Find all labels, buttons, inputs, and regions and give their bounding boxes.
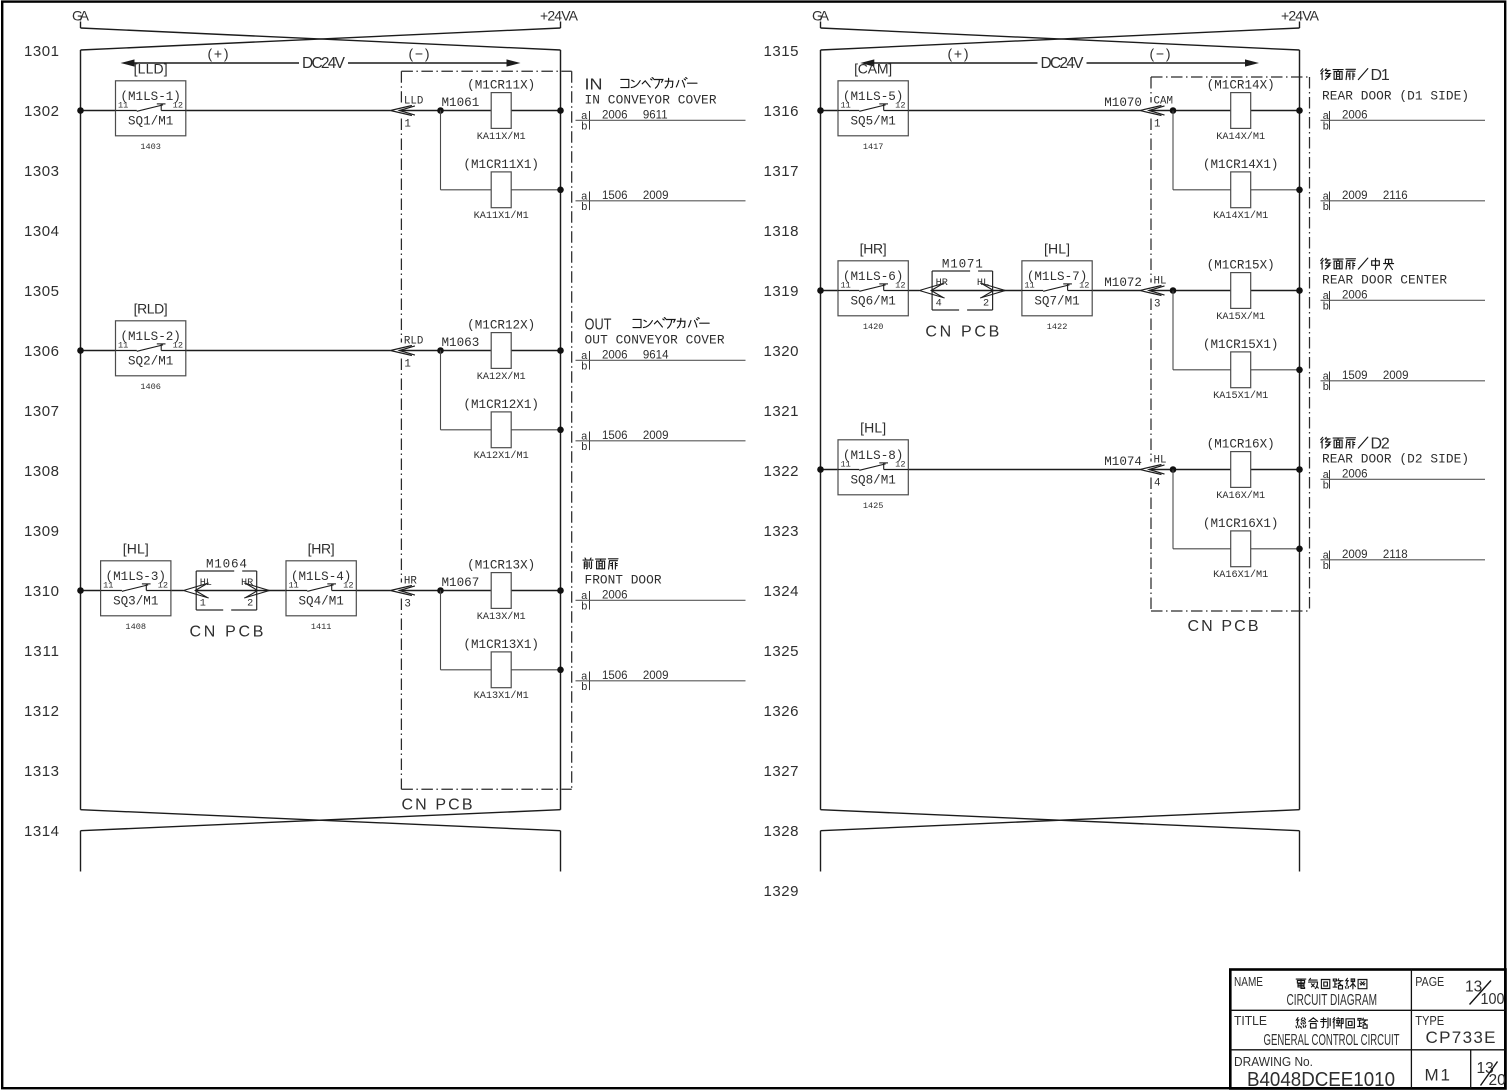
svg-text:2006: 2006	[1342, 469, 1368, 481]
svg-text:2006: 2006	[602, 110, 628, 122]
relay coil KA15X (M1CR15X)	[1207, 259, 1275, 323]
svg-text:b: b	[1323, 481, 1330, 493]
svg-text:11: 11	[1024, 280, 1034, 290]
svg-text:2006: 2006	[602, 590, 628, 602]
svg-text:1326: 1326	[764, 703, 799, 720]
svg-text:1425: 1425	[863, 501, 884, 511]
svg-text:RLD: RLD	[404, 336, 423, 348]
svg-text:1302: 1302	[24, 103, 59, 120]
svg-text:M1: M1	[1425, 1065, 1451, 1084]
svg-text:CIRCUIT DIAGRAM: CIRCUIT DIAGRAM	[1287, 992, 1378, 1009]
svg-text:2: 2	[983, 299, 989, 310]
svg-text:1406: 1406	[140, 382, 161, 392]
+24VA supply rail (right)	[560, 50, 562, 810]
relay coil KA12X1 (M1CR12X1)	[463, 398, 539, 462]
svg-text:[LLD]: [LLD]	[134, 60, 168, 76]
CN PCB label under connector	[925, 324, 999, 341]
connector pin CAM-1 at CN PCB boundary	[1140, 96, 1173, 131]
relay coil KA11X1 (M1CR11X1)	[463, 158, 539, 222]
branch wire to KA11X1	[441, 111, 564, 194]
svg-text:GA: GA	[72, 8, 90, 24]
svg-text:1: 1	[404, 358, 410, 370]
svg-text:1420: 1420	[863, 322, 884, 332]
wire number 1506 2009	[576, 670, 746, 694]
svg-text:(M1CR16X): (M1CR16X)	[1207, 438, 1275, 452]
svg-text:[HR]: [HR]	[860, 240, 887, 256]
+24VA bus label	[1281, 8, 1320, 24]
svg-text:2009: 2009	[643, 430, 669, 442]
svg-text:9611: 9611	[643, 110, 668, 122]
bus continuation crossover to next page	[821, 810, 1300, 872]
svg-text:1313: 1313	[24, 763, 59, 780]
line number column	[764, 43, 799, 900]
svg-text:1304: 1304	[24, 223, 59, 240]
svg-text:HR: HR	[404, 576, 417, 588]
svg-text:1318: 1318	[764, 223, 799, 240]
node M1061	[442, 96, 480, 110]
svg-text:HL: HL	[1154, 455, 1167, 467]
svg-text:D1: D1	[1371, 67, 1390, 84]
svg-text:12: 12	[1079, 280, 1089, 290]
svg-text:(M1CR12X1): (M1CR12X1)	[463, 398, 539, 412]
wire number 2009 2116	[1321, 190, 1486, 214]
svg-text:1408: 1408	[125, 622, 146, 632]
wire number 2006 9614	[576, 350, 746, 374]
svg-text:1301: 1301	[24, 43, 59, 60]
svg-text:1315: 1315	[764, 43, 799, 60]
wire number 2006	[1321, 110, 1486, 134]
svg-text:TYPE: TYPE	[1415, 1013, 1444, 1028]
svg-text:1329: 1329	[764, 883, 799, 900]
limit switch SQ3 (M1LS-3)	[101, 540, 171, 632]
svg-text:M1071: M1071	[942, 258, 983, 272]
svg-text:M1074: M1074	[1104, 455, 1142, 469]
svg-text:(−): (−)	[1150, 46, 1171, 62]
wire number 1506 2009	[576, 430, 746, 454]
svg-text:SQ3/M1: SQ3/M1	[113, 595, 158, 609]
relay coil KA15X1 (M1CR15X1)	[1203, 338, 1279, 402]
svg-text:b: b	[581, 122, 588, 134]
limit switch SQ5 (M1LS-5)	[838, 60, 908, 152]
svg-text:1321: 1321	[764, 403, 799, 420]
svg-text:(M1CR14X1): (M1CR14X1)	[1203, 158, 1279, 172]
svg-text:1323: 1323	[764, 523, 799, 540]
svg-text:11: 11	[841, 100, 851, 110]
svg-text:OUT CONVEYOR COVER: OUT CONVEYOR COVER	[585, 333, 725, 348]
title block kanji NAME field	[1296, 978, 1367, 989]
svg-text:SQ4/M1: SQ4/M1	[298, 595, 343, 609]
svg-text:20: 20	[1489, 1072, 1507, 1089]
svg-text:CP733E: CP733E	[1426, 1028, 1496, 1047]
svg-text:REAR DOOR CENTER: REAR DOOR CENTER	[1322, 273, 1447, 288]
svg-text:(M1CR13X1): (M1CR13X1)	[463, 638, 539, 652]
svg-text:11: 11	[103, 580, 113, 590]
wire rung at line 1310	[77, 587, 564, 594]
svg-text:+24VA: +24VA	[540, 8, 579, 24]
svg-text:DRAWING No.: DRAWING No.	[1234, 1054, 1313, 1069]
svg-text:M1067: M1067	[442, 576, 480, 590]
relay coil KA12X (M1CR12X)	[467, 319, 535, 383]
svg-text:(+): (+)	[948, 46, 969, 62]
svg-text:b: b	[1323, 202, 1330, 214]
wire rung at line 1306	[77, 347, 564, 354]
branch wire to KA12X1	[441, 351, 564, 434]
limit switch SQ7 (M1LS-7)	[1022, 240, 1092, 332]
svg-text:1316: 1316	[764, 103, 799, 120]
svg-text:1: 1	[200, 599, 206, 610]
svg-text:1314: 1314	[24, 823, 59, 840]
svg-text:12: 12	[343, 580, 353, 590]
connector pin RLD-1 at CN PCB boundary	[390, 336, 423, 371]
svg-text:1327: 1327	[764, 763, 799, 780]
svg-text:1303: 1303	[24, 163, 59, 180]
svg-text:b: b	[1323, 122, 1330, 134]
svg-text:CN PCB: CN PCB	[925, 324, 999, 341]
svg-text:M1064: M1064	[206, 558, 247, 572]
limit switch SQ4 (M1LS-4)	[286, 540, 356, 632]
svg-text:HL: HL	[200, 578, 212, 589]
svg-text:KA11X/M1: KA11X/M1	[477, 131, 526, 143]
connector M1071 (CN PCB header)	[919, 258, 1005, 311]
svg-text:b: b	[1323, 382, 1330, 394]
wire number 2006	[576, 590, 746, 614]
svg-text:HR: HR	[241, 578, 253, 589]
svg-text:(M1CR14X): (M1CR14X)	[1207, 79, 1275, 93]
node M1072	[1104, 276, 1142, 290]
svg-text:3: 3	[1154, 298, 1160, 310]
svg-text:(−): (−)	[409, 46, 430, 62]
svg-text:12: 12	[895, 100, 905, 110]
relay coil KA16X1 (M1CR16X1)	[1203, 517, 1279, 581]
svg-text:REAR DOOR (D2 SIDE): REAR DOOR (D2 SIDE)	[1322, 452, 1469, 467]
svg-text:b: b	[581, 362, 588, 374]
svg-text:12: 12	[895, 459, 905, 469]
svg-text:M1070: M1070	[1104, 96, 1142, 110]
CN PCB boundary box (right ladder)	[1151, 77, 1310, 635]
svg-text:[HL]: [HL]	[123, 540, 149, 556]
svg-text:b: b	[581, 602, 588, 614]
node M1070	[1104, 96, 1142, 110]
wire number 2006	[1321, 469, 1486, 493]
svg-text:11: 11	[118, 100, 128, 110]
relay coil KA13X (M1CR13X)	[467, 559, 535, 623]
svg-text:M1072: M1072	[1104, 276, 1142, 290]
svg-text:2009: 2009	[643, 190, 669, 202]
svg-text:M1063: M1063	[442, 336, 480, 350]
svg-text:SQ6/M1: SQ6/M1	[850, 295, 895, 309]
relay coil KA14X1 (M1CR14X1)	[1203, 158, 1279, 222]
svg-text:2006: 2006	[1342, 110, 1368, 122]
annotation REAR DOOR CENTER	[1321, 258, 1448, 287]
wire number 2006	[1321, 290, 1486, 314]
svg-text:1422: 1422	[1047, 322, 1068, 332]
svg-text:DC24V: DC24V	[302, 55, 346, 72]
svg-text:SQ2/M1: SQ2/M1	[128, 355, 173, 369]
connector pin HL-3 at CN PCB boundary	[1140, 276, 1166, 311]
svg-text:2009: 2009	[1342, 190, 1368, 202]
svg-text:CN PCB: CN PCB	[189, 624, 263, 641]
svg-text:CN PCB: CN PCB	[1188, 618, 1259, 635]
annotation FRONT DOOR	[583, 558, 662, 588]
CN PCB label under connector	[189, 624, 263, 641]
line number column	[24, 43, 59, 840]
svg-text:1506: 1506	[602, 190, 628, 202]
svg-text:12: 12	[173, 100, 183, 110]
svg-text:1506: 1506	[602, 670, 628, 682]
GA supply rail (left)	[820, 50, 822, 810]
svg-text:2009: 2009	[1383, 370, 1409, 382]
svg-text:11: 11	[841, 280, 851, 290]
svg-text:4: 4	[936, 299, 942, 310]
svg-text:1306: 1306	[24, 343, 59, 360]
svg-text:1317: 1317	[764, 163, 799, 180]
svg-text:3: 3	[404, 598, 410, 610]
svg-text:OUT: OUT	[585, 317, 612, 334]
svg-text:2009: 2009	[643, 670, 669, 682]
svg-text:1320: 1320	[764, 343, 799, 360]
svg-text:1312: 1312	[24, 703, 59, 720]
svg-text:KA12X/M1: KA12X/M1	[477, 371, 526, 383]
wire number 1509 2009	[1321, 370, 1486, 394]
svg-text:B4048DCEE1010: B4048DCEE1010	[1247, 1069, 1395, 1091]
svg-text:[HR]: [HR]	[308, 540, 335, 556]
svg-text:NAME: NAME	[1234, 974, 1263, 989]
DC24V polarity dimension arrow	[860, 46, 1259, 72]
svg-text:HR: HR	[936, 278, 948, 289]
svg-text:IN CONVEYOR COVER: IN CONVEYOR COVER	[585, 93, 717, 108]
svg-text:KA13X/M1: KA13X/M1	[477, 611, 526, 623]
svg-text:SQ7/M1: SQ7/M1	[1034, 295, 1079, 309]
svg-text:1319: 1319	[764, 283, 799, 300]
relay coil KA16X (M1CR16X)	[1207, 438, 1275, 502]
svg-text:[RLD]: [RLD]	[134, 300, 168, 316]
svg-text:b: b	[1323, 561, 1330, 573]
svg-text:SQ5/M1: SQ5/M1	[850, 115, 895, 129]
connector pin LLD-1 at CN PCB boundary	[390, 96, 423, 131]
GA bus label	[812, 8, 830, 24]
svg-text:(+): (+)	[208, 46, 229, 62]
svg-text:4: 4	[1154, 477, 1160, 489]
svg-text:CN PCB: CN PCB	[402, 797, 473, 814]
limit switch SQ8 (M1LS-8)	[838, 419, 908, 511]
svg-text:REAR DOOR (D1 SIDE): REAR DOOR (D1 SIDE)	[1322, 89, 1469, 104]
svg-text:KA13X1/M1: KA13X1/M1	[474, 690, 529, 702]
svg-text:b: b	[581, 202, 588, 214]
svg-text:1509: 1509	[1342, 370, 1368, 382]
wire rung at line 1302	[77, 107, 564, 114]
limit switch SQ1 (M1LS-1)	[116, 60, 186, 152]
svg-text:1417: 1417	[863, 142, 884, 152]
GA bus label	[72, 8, 90, 24]
svg-text:[HL]: [HL]	[860, 419, 886, 435]
svg-text:1310: 1310	[24, 583, 59, 600]
svg-text:(M1CR15X1): (M1CR15X1)	[1203, 338, 1279, 352]
svg-text:11: 11	[841, 459, 851, 469]
svg-text:11: 11	[289, 580, 299, 590]
DC24V polarity dimension arrow	[121, 46, 521, 72]
annotation REAR DOOR (D1 SIDE)	[1321, 67, 1469, 104]
svg-text:IN: IN	[585, 77, 603, 94]
svg-text:1506: 1506	[602, 430, 628, 442]
svg-text:HL: HL	[1154, 276, 1167, 288]
svg-text:KA14X1/M1: KA14X1/M1	[1213, 210, 1268, 222]
svg-text:M1061: M1061	[442, 96, 480, 110]
svg-text:9614: 9614	[643, 350, 669, 362]
GA supply rail (left)	[80, 50, 82, 810]
svg-text:b: b	[581, 682, 588, 694]
svg-text:100: 100	[1481, 991, 1505, 1008]
svg-text:1325: 1325	[764, 643, 799, 660]
node M1063	[442, 336, 480, 350]
svg-text:1328: 1328	[764, 823, 799, 840]
limit switch SQ2 (M1LS-2)	[116, 300, 186, 392]
svg-text:1308: 1308	[24, 463, 59, 480]
svg-text:1403: 1403	[140, 142, 161, 152]
title block	[1230, 970, 1506, 1092]
wire rung at line 1319	[817, 287, 1303, 294]
svg-text:1322: 1322	[764, 463, 799, 480]
svg-text:12: 12	[895, 280, 905, 290]
svg-text:11: 11	[118, 340, 128, 350]
bus continuation crossover from previous page	[821, 22, 1300, 51]
svg-text:KA14X/M1: KA14X/M1	[1216, 131, 1265, 143]
branch wire to KA13X1	[441, 591, 564, 674]
bus continuation crossover to next page	[81, 810, 561, 872]
svg-text:1: 1	[1154, 118, 1160, 130]
connector M1064 (CN PCB header)	[184, 558, 270, 611]
svg-text:KA16X/M1: KA16X/M1	[1216, 490, 1265, 502]
svg-text:CAM: CAM	[1154, 96, 1173, 108]
svg-text:b: b	[581, 442, 588, 454]
annotation REAR DOOR (D2 SIDE)	[1321, 436, 1469, 467]
svg-text:(M1CR11X): (M1CR11X)	[467, 79, 535, 93]
relay coil KA13X1 (M1CR13X1)	[463, 638, 539, 702]
svg-text:1411: 1411	[311, 622, 332, 632]
+24VA supply rail (right)	[1299, 50, 1301, 810]
svg-text:1311: 1311	[24, 643, 59, 660]
svg-text:b: b	[1323, 302, 1330, 314]
svg-text:2116: 2116	[1383, 190, 1408, 202]
svg-text:(M1CR15X): (M1CR15X)	[1207, 259, 1275, 273]
svg-text:1305: 1305	[24, 283, 59, 300]
branch wire to KA14X1	[1173, 111, 1303, 194]
node M1074	[1104, 455, 1142, 469]
wire number 2006 9611	[576, 110, 746, 134]
wire number 2009 2118	[1321, 549, 1486, 573]
svg-text:GENERAL CONTROL CIRCUIT: GENERAL CONTROL CIRCUIT	[1264, 1032, 1400, 1049]
svg-text:KA15X1/M1: KA15X1/M1	[1213, 390, 1268, 402]
svg-text:2: 2	[247, 599, 253, 610]
svg-text:[HL]: [HL]	[1044, 240, 1070, 256]
svg-text:KA15X/M1: KA15X/M1	[1216, 311, 1265, 323]
annotation OUT CONVEYOR COVER	[585, 317, 725, 348]
svg-text:KA16X1/M1: KA16X1/M1	[1213, 569, 1268, 581]
svg-text:(M1CR12X): (M1CR12X)	[467, 319, 535, 333]
svg-text:(M1CR13X): (M1CR13X)	[467, 559, 535, 573]
svg-text:(M1CR16X1): (M1CR16X1)	[1203, 517, 1279, 531]
svg-text:2009: 2009	[1342, 549, 1368, 561]
wire number 1506 2009	[576, 190, 746, 214]
bus continuation crossover from previous page	[81, 22, 561, 51]
svg-text:1309: 1309	[24, 523, 59, 540]
wire rung at line 1322	[817, 466, 1303, 473]
svg-text:HL: HL	[977, 278, 989, 289]
svg-text:SQ1/M1: SQ1/M1	[128, 115, 173, 129]
svg-text:KA11X1/M1: KA11X1/M1	[474, 210, 529, 222]
svg-text:FRONT DOOR: FRONT DOOR	[585, 573, 662, 588]
wire rung at line 1316	[817, 107, 1303, 114]
svg-text:12: 12	[158, 580, 168, 590]
svg-text:12: 12	[173, 340, 183, 350]
branch wire to KA15X1	[1173, 291, 1303, 374]
svg-text:PAGE: PAGE	[1415, 974, 1444, 989]
svg-text:1: 1	[404, 118, 410, 130]
svg-text:D2: D2	[1371, 436, 1390, 453]
limit switch SQ6 (M1LS-6)	[838, 240, 908, 332]
svg-text:1324: 1324	[764, 583, 799, 600]
svg-text:KA12X1/M1: KA12X1/M1	[474, 450, 529, 462]
CN PCB boundary box (left ladder)	[401, 71, 571, 813]
relay coil KA14X (M1CR14X)	[1207, 79, 1275, 143]
svg-text:TITLE: TITLE	[1234, 1013, 1267, 1028]
svg-text:2006: 2006	[1342, 290, 1368, 302]
svg-text:[CAM]: [CAM]	[854, 60, 892, 76]
connector pin HR-3 at CN PCB boundary	[390, 576, 417, 611]
svg-text:2118: 2118	[1383, 549, 1408, 561]
connector pin HL-4 at CN PCB boundary	[1140, 455, 1166, 490]
annotation IN CONVEYOR COVER	[585, 77, 717, 108]
title block kanji TITLE field	[1296, 1018, 1368, 1029]
svg-text:GA: GA	[812, 8, 830, 24]
relay coil KA11X (M1CR11X)	[467, 79, 535, 143]
svg-text:SQ8/M1: SQ8/M1	[850, 474, 895, 488]
svg-text:+24VA: +24VA	[1281, 8, 1320, 24]
branch wire to KA16X1	[1173, 470, 1303, 553]
svg-text:(M1CR11X1): (M1CR11X1)	[463, 158, 539, 172]
svg-text:2006: 2006	[602, 350, 628, 362]
+24VA bus label	[540, 8, 579, 24]
svg-text:LLD: LLD	[404, 96, 423, 108]
svg-text:1307: 1307	[24, 403, 59, 420]
svg-text:DC24V: DC24V	[1041, 55, 1085, 72]
node M1067	[442, 576, 480, 590]
